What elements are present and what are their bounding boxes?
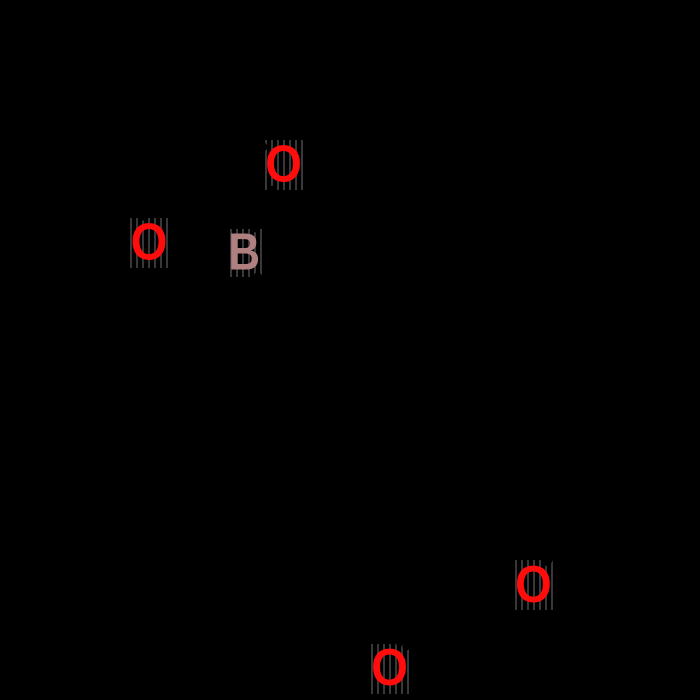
bond C=O line2 <box>400 583 434 643</box>
bond C4-CH3 b <box>155 23 212 101</box>
texture under atom B (boron) label <box>226 229 264 277</box>
atom O3 (ester O) label <box>515 559 552 611</box>
bond B-O2 <box>176 246 218 250</box>
bond C5-CH3 d <box>89 61 129 149</box>
bond C6=C1 inner <box>265 358 295 411</box>
bond C3-C4r <box>389 418 436 501</box>
bond C1-C2 <box>292 332 388 341</box>
atom O2 (pinacol left O) label <box>131 217 168 269</box>
bond C5-CH3 c <box>37 149 129 179</box>
bond O(ester)-CH3 <box>547 502 582 562</box>
bond C5-O2 <box>128 149 143 217</box>
bond C=O line1 <box>406 587 440 647</box>
texture under atom O4 (carbonyl O) label <box>367 644 412 694</box>
bond C2-C3 <box>388 336 436 418</box>
bond C5r-C6 <box>245 420 293 503</box>
atom O1 (pinacol top O) label <box>265 139 302 191</box>
texture under atom O3 (ester O) label <box>511 560 556 610</box>
bond C(ester)-O(ester) <box>437 581 506 589</box>
bond O1-C4 <box>212 101 264 147</box>
bond B-O1 <box>255 190 272 229</box>
texture under atom O2 (pinacol left O) label <box>126 218 171 268</box>
bond C4r-C(ester) <box>389 501 437 585</box>
atom O4 (carbonyl O) label <box>371 642 408 694</box>
bond C4-C5 <box>128 101 212 149</box>
atom B (boron) label <box>228 227 260 279</box>
bond B-C1(ring) <box>258 276 293 336</box>
bond C6-C1 <box>245 337 292 420</box>
bond C4r-C5r <box>293 497 389 506</box>
bond C4-CH3 a <box>212 36 284 101</box>
bond C4r=C5r inner <box>311 485 372 493</box>
bond C2=C3 inner <box>386 357 417 410</box>
texture under atom O1 (pinacol top O) label <box>261 140 306 190</box>
